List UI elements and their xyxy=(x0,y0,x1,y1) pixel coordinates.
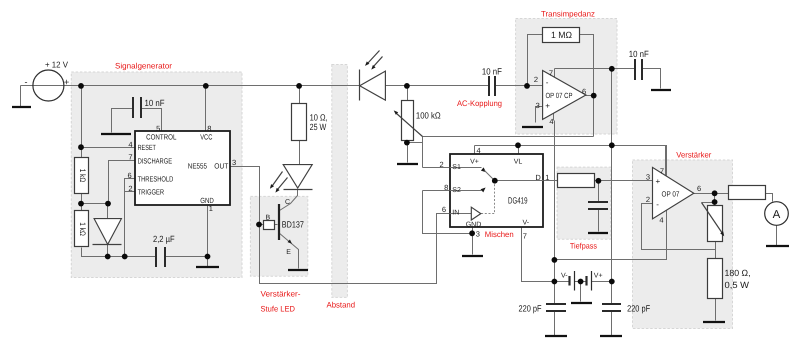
svg-text:4: 4 xyxy=(549,117,553,126)
svg-text:2: 2 xyxy=(128,184,132,193)
svg-text:8: 8 xyxy=(444,183,448,192)
svg-text:4: 4 xyxy=(128,140,132,149)
svg-text:-: - xyxy=(25,77,28,87)
svg-text:180 Ω,: 180 Ω, xyxy=(725,268,751,278)
svg-text:CONTROL: CONTROL xyxy=(146,132,176,141)
svg-text:-: - xyxy=(656,200,659,209)
svg-text:AC-Kopplung: AC-Kopplung xyxy=(457,99,502,108)
svg-text:THRESHOLD: THRESHOLD xyxy=(138,175,174,184)
svg-text:2: 2 xyxy=(534,75,538,84)
svg-text:D: D xyxy=(535,173,541,182)
svg-text:V+: V+ xyxy=(594,273,603,280)
svg-text:Mischen: Mischen xyxy=(485,230,514,239)
svg-text:+: + xyxy=(656,177,661,186)
svg-text:RESET: RESET xyxy=(138,143,157,152)
svg-text:Transimpedanz: Transimpedanz xyxy=(541,10,595,19)
svg-text:A: A xyxy=(773,209,781,221)
svg-text:7: 7 xyxy=(523,232,527,241)
svg-text:4: 4 xyxy=(477,146,481,155)
svg-text:E: E xyxy=(286,249,291,256)
svg-text:100 kΩ: 100 kΩ xyxy=(416,111,441,121)
svg-text:7: 7 xyxy=(660,167,664,176)
svg-text:220 pF: 220 pF xyxy=(627,303,650,313)
svg-text:IN: IN xyxy=(452,209,459,216)
svg-text:Abstand: Abstand xyxy=(327,301,356,310)
svg-text:+: + xyxy=(545,101,550,110)
svg-text:+ 12 V: + 12 V xyxy=(45,60,68,70)
svg-text:V+: V+ xyxy=(470,159,479,166)
svg-text:Stufe LED: Stufe LED xyxy=(261,305,296,314)
svg-text:2: 2 xyxy=(646,195,650,204)
svg-text:Verstärker-: Verstärker- xyxy=(261,290,301,299)
svg-text:1: 1 xyxy=(209,204,213,213)
svg-text:3: 3 xyxy=(646,173,650,182)
svg-text:V-: V- xyxy=(561,272,568,279)
svg-text:10 Ω,: 10 Ω, xyxy=(310,112,328,122)
svg-text:6: 6 xyxy=(697,184,701,193)
svg-text:OP 07 CP: OP 07 CP xyxy=(546,91,573,100)
svg-text:10 nF: 10 nF xyxy=(482,66,502,76)
svg-text:1 MΩ: 1 MΩ xyxy=(551,30,572,40)
svg-text:+: + xyxy=(64,77,69,87)
svg-text:5: 5 xyxy=(156,124,160,133)
svg-text:25 W: 25 W xyxy=(310,122,327,132)
svg-text:3: 3 xyxy=(536,101,540,110)
svg-text:-: - xyxy=(546,78,549,87)
svg-text:C: C xyxy=(285,199,290,206)
svg-text:VL: VL xyxy=(514,159,523,166)
svg-text:1: 1 xyxy=(545,173,549,182)
svg-text:S1: S1 xyxy=(452,164,461,171)
svg-text:Tiefpass: Tiefpass xyxy=(570,242,597,251)
svg-text:Verstärker: Verstärker xyxy=(676,151,711,160)
svg-text:OP 07: OP 07 xyxy=(662,189,680,198)
svg-text:7: 7 xyxy=(549,69,553,78)
svg-text:220 pF: 220 pF xyxy=(519,303,542,313)
svg-text:8: 8 xyxy=(207,124,211,133)
svg-text:S2: S2 xyxy=(452,187,461,194)
svg-text:NE555: NE555 xyxy=(188,162,207,171)
svg-text:BD137: BD137 xyxy=(282,220,304,230)
svg-text:3: 3 xyxy=(476,230,480,239)
svg-text:0,5 W: 0,5 W xyxy=(725,280,750,290)
svg-text:V-: V- xyxy=(523,219,530,226)
svg-text:TRIGGER: TRIGGER xyxy=(138,188,165,197)
svg-text:1 kΩ: 1 kΩ xyxy=(78,169,87,183)
svg-text:10 nF: 10 nF xyxy=(629,49,649,59)
svg-text:DG419: DG419 xyxy=(508,195,528,205)
svg-text:DISCHARGE: DISCHARGE xyxy=(138,156,173,165)
svg-text:7: 7 xyxy=(128,152,132,161)
svg-text:2,2 µF: 2,2 µF xyxy=(153,234,175,244)
svg-text:OUT: OUT xyxy=(214,162,228,171)
svg-text:VCC: VCC xyxy=(200,132,213,141)
svg-text:6: 6 xyxy=(128,171,132,180)
svg-text:6: 6 xyxy=(582,87,586,96)
svg-text:10 nF: 10 nF xyxy=(145,98,165,108)
svg-text:B: B xyxy=(266,215,271,222)
svg-text:Signalgenerator: Signalgenerator xyxy=(115,61,172,70)
svg-text:6: 6 xyxy=(442,205,446,214)
svg-text:3: 3 xyxy=(232,158,236,167)
svg-text:4: 4 xyxy=(659,216,663,225)
svg-text:GND: GND xyxy=(466,221,482,228)
svg-text:1 kΩ: 1 kΩ xyxy=(78,222,87,236)
svg-text:2: 2 xyxy=(440,160,444,169)
